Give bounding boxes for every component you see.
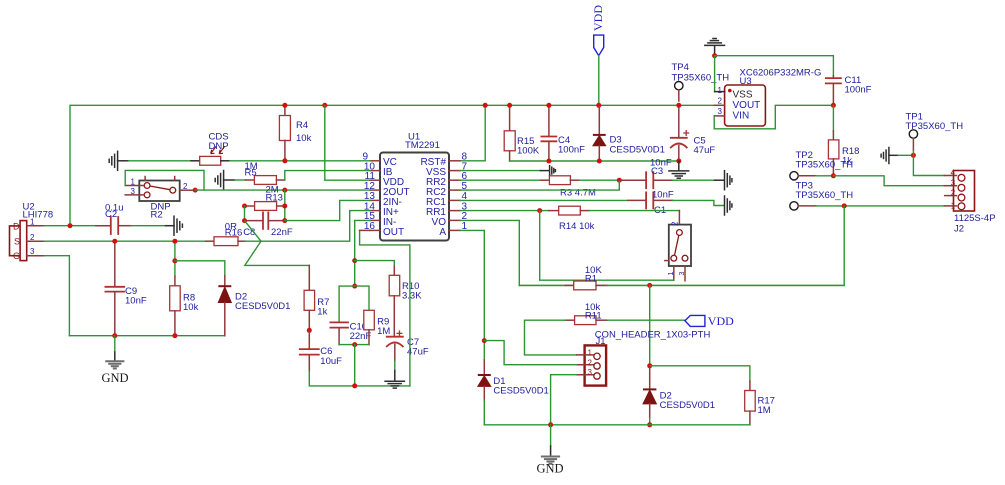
resistor CDS (photoresistor, DNP) xyxy=(191,132,230,166)
svg-text:3: 3 xyxy=(951,179,956,188)
node junction R3/C3/RC2 xyxy=(617,178,622,183)
node junction R8 bottom xyxy=(172,333,177,338)
svg-text:TP35X60_TH: TP35X60_TH xyxy=(796,190,854,201)
wire R18 node to J2 pin3 xyxy=(833,176,944,186)
svg-text:1k: 1k xyxy=(317,307,327,318)
resistor R14 xyxy=(549,206,595,232)
node junction R4 bottom xyxy=(282,158,287,163)
resistor R17 xyxy=(745,381,775,425)
resistor R4 xyxy=(279,105,311,161)
wire VDD rail top xyxy=(70,105,715,225)
svg-text:GND: GND xyxy=(537,462,564,476)
svg-text:1: 1 xyxy=(951,202,956,211)
ground sideways right of VSS (small) xyxy=(540,166,555,176)
node junction IN- / R10 xyxy=(352,258,357,263)
wire R3 to C3 node xyxy=(579,179,619,181)
diode D2 (bottom) xyxy=(643,366,715,425)
connector J1 CON_HEADER_1X03-PTH xyxy=(577,330,711,386)
pin 6 RR2 xyxy=(426,171,468,188)
node junction C4 top xyxy=(546,103,551,108)
svg-text:3.3K: 3.3K xyxy=(402,291,422,302)
wire TP2 to junction xyxy=(816,175,834,177)
svg-text:VDD: VDD xyxy=(708,314,734,328)
test point TP3 xyxy=(790,181,853,211)
pin 14 IN+ xyxy=(364,201,399,218)
svg-text:CESD5V0D1: CESD5V0D1 xyxy=(493,386,548,397)
wire TP1 to J2 pin4 xyxy=(913,150,944,176)
node junction C5 top / TP4 xyxy=(676,103,681,108)
wire bottom rail xyxy=(484,424,750,426)
wire block bottom to rail xyxy=(354,345,356,386)
svg-text:3: 3 xyxy=(679,272,686,276)
wire IN- drop xyxy=(355,220,370,286)
wire R14 to switch xyxy=(589,210,679,212)
svg-text:R13: R13 xyxy=(266,193,283,204)
svg-text:U3: U3 xyxy=(740,76,752,87)
wire VIN loop xyxy=(714,105,833,129)
svg-text:3: 3 xyxy=(718,107,723,116)
ground earth below C5 xyxy=(669,161,689,178)
node junction R8 branch xyxy=(172,258,177,263)
resistor R3 xyxy=(540,176,596,199)
ground flag GND left xyxy=(102,336,129,385)
svg-text:100K: 100K xyxy=(517,146,540,157)
svg-text:3: 3 xyxy=(588,368,593,377)
node junction C9 bottom xyxy=(112,333,117,338)
wire gnd down to U3 pin1 xyxy=(714,56,716,92)
node junction RR1 drop xyxy=(537,208,542,213)
wire to R17 xyxy=(650,366,750,381)
wire diagonal IN+ to R7 line xyxy=(245,241,309,265)
wire R11 right to VDD flag xyxy=(607,319,685,321)
svg-text:CESD5V0D1: CESD5V0D1 xyxy=(660,400,715,411)
pin 7 VSS xyxy=(426,162,468,179)
wire RR2 pin6 to R3 xyxy=(460,179,540,181)
svg-text:2: 2 xyxy=(718,97,723,106)
svg-text:D: D xyxy=(13,222,20,232)
svg-text:R5: R5 xyxy=(245,168,257,179)
op-amp U3 XC6206P332MR-G xyxy=(714,68,821,127)
wire R10 top branch xyxy=(355,261,395,267)
wire R13/C8 left link xyxy=(244,206,246,221)
svg-text:TP35X60_TH: TP35X60_TH xyxy=(906,121,964,132)
capacitor C8 xyxy=(243,212,293,238)
svg-text:47uF: 47uF xyxy=(694,145,716,156)
svg-text:J2: J2 xyxy=(954,224,964,235)
svg-text:R3 4.7M: R3 4.7M xyxy=(560,188,596,199)
svg-text:C3: C3 xyxy=(651,166,663,177)
node junction C9 top xyxy=(112,239,117,244)
resistor R1 xyxy=(519,265,607,290)
wire J1 pin3 down xyxy=(551,375,577,425)
wire C3 to gnd xyxy=(673,179,715,181)
capacitor C2 xyxy=(96,203,131,235)
svg-text:VIN: VIN xyxy=(733,110,750,121)
pin 10 IB xyxy=(364,162,393,179)
svg-text:R2: R2 xyxy=(151,210,163,221)
node junction RST# rail xyxy=(483,103,488,108)
pin 8 RST# xyxy=(420,152,467,169)
svg-text:3: 3 xyxy=(30,247,35,256)
wire bottom-left rail xyxy=(69,335,224,337)
wire gnd to CDS xyxy=(129,160,192,162)
svg-text:VSS: VSS xyxy=(733,90,753,101)
wire D2 branch down xyxy=(649,285,651,365)
pin 16 OUT xyxy=(364,221,404,238)
wire R2 pin1 jog xyxy=(125,170,204,190)
wire CDS to pin 9 xyxy=(230,160,370,162)
ground sideways left of CDS xyxy=(109,151,128,170)
node junction out rail xyxy=(352,383,357,388)
node junction C8 left xyxy=(242,218,247,223)
svg-text:1M: 1M xyxy=(758,405,771,416)
wire OUT pin16 routing xyxy=(360,230,410,386)
wire A pin1 drop xyxy=(460,230,484,340)
net flag VDD bottom xyxy=(685,314,734,328)
svg-text:3: 3 xyxy=(131,187,136,196)
resistor R8 xyxy=(170,241,199,336)
svg-text:1125S-4P: 1125S-4P xyxy=(954,213,996,224)
ground sideways right of C1 xyxy=(725,196,732,215)
diode D1 xyxy=(478,341,549,425)
resistor R16 0R xyxy=(206,222,245,246)
wire 2OUT drop to R13/C8 xyxy=(284,190,286,221)
svg-text:2: 2 xyxy=(588,358,593,367)
svg-text:CESD5V0D1: CESD5V0D1 xyxy=(235,301,290,312)
ground sideways left of R5 xyxy=(215,171,234,190)
wire gnd to R5 xyxy=(235,179,246,181)
svg-text:22nF: 22nF xyxy=(350,331,372,342)
node junction R13 right xyxy=(282,204,287,209)
wire C8 right to pin 13 xyxy=(285,200,370,220)
node junction R4 top xyxy=(282,103,287,108)
capacitor C4 xyxy=(541,105,585,161)
node junction R2 pin2 xyxy=(193,188,198,193)
svg-text:G: G xyxy=(13,251,20,261)
switch S1 xyxy=(665,211,691,281)
pin 11 VDD xyxy=(365,171,405,188)
wire C2 to gnd xyxy=(131,225,166,227)
node junction VDD-pin11 drop xyxy=(322,103,327,108)
svg-text:CESD5V0D1: CESD5V0D1 xyxy=(610,145,665,156)
node junction TP1 xyxy=(911,153,916,158)
wire TP3 to J2 pin1 xyxy=(816,205,945,207)
svg-text:LHI778: LHI778 xyxy=(23,210,54,221)
node junction 2OUT drop xyxy=(282,188,287,193)
capacitor C3 xyxy=(619,158,672,189)
svg-text:1: 1 xyxy=(718,86,723,95)
svg-text:22nF: 22nF xyxy=(271,227,293,238)
ground earth below C7 xyxy=(385,371,404,389)
svg-text:10k: 10k xyxy=(183,302,199,313)
svg-text:1: 1 xyxy=(131,178,136,187)
pin 1 A xyxy=(439,221,467,238)
wire R5 to pin 10 IB xyxy=(285,171,370,180)
wire R16 to IN+ xyxy=(245,211,370,242)
node junction block bottom xyxy=(352,342,357,347)
svg-text:2: 2 xyxy=(183,182,188,191)
wire 2OUT line xyxy=(195,189,370,191)
resistor R7 xyxy=(304,265,329,330)
svg-text:A: A xyxy=(439,227,446,238)
test point TP2 xyxy=(790,150,853,180)
wire TP3 node down to R1 line xyxy=(519,206,844,286)
wire RR1 drop to switch pin1 xyxy=(540,211,674,281)
node junction R18/TP2 xyxy=(831,173,836,178)
svg-text:J1: J1 xyxy=(596,336,606,347)
svg-text:1M: 1M xyxy=(377,326,390,337)
capacitor C7 polarized xyxy=(387,330,429,371)
node junction C4 bottom xyxy=(546,159,551,164)
svg-text:1: 1 xyxy=(588,349,593,358)
pin 2 VO xyxy=(432,211,468,228)
svg-text:10k: 10k xyxy=(296,133,312,144)
wire RST# to rail xyxy=(460,105,485,161)
svg-text:1: 1 xyxy=(668,272,675,276)
svg-text:OUT: OUT xyxy=(383,227,404,238)
node junction C10/R9 top xyxy=(352,284,357,289)
wire RC1 pin4 to C1 xyxy=(460,199,628,201)
wire R1 to TP3 drop xyxy=(607,284,844,286)
wire gnd to TP1 xyxy=(898,154,913,156)
ground earth above U3 (flipped up) xyxy=(705,39,725,56)
pin 12 2OUT xyxy=(364,181,410,198)
wire U2 pin2 line xyxy=(44,240,206,242)
svg-text:R4: R4 xyxy=(296,120,308,131)
connector J2 1125S-4P xyxy=(944,169,995,235)
node junction C8 right xyxy=(282,218,287,223)
svg-text:2: 2 xyxy=(671,221,680,226)
svg-text:TP35X60_TH: TP35X60_TH xyxy=(796,160,854,171)
svg-text:100nF: 100nF xyxy=(845,85,872,96)
ground sideways right of C2 xyxy=(166,216,183,235)
node junction D2/R17 xyxy=(647,363,652,368)
wire branch to D2 xyxy=(175,261,225,276)
resistor R9 xyxy=(364,310,391,344)
wire gnd to C11 top xyxy=(715,56,834,76)
pin 13 2IN- xyxy=(364,191,402,208)
wire U2 pin1 to C2 xyxy=(44,225,96,227)
pin 15 IN- xyxy=(364,211,396,228)
svg-text:DNP: DNP xyxy=(209,141,229,152)
svg-text:C2: C2 xyxy=(105,209,117,220)
svg-text:TM2291: TM2291 xyxy=(405,140,440,151)
svg-text:10nF: 10nF xyxy=(125,296,147,307)
node junction D2 bottom rail xyxy=(647,422,652,427)
pin 4 RC1 xyxy=(426,191,468,208)
node junction J1 pin3 / rail xyxy=(548,422,553,427)
wire C1 to gnd jog xyxy=(673,200,725,205)
resistor R18 xyxy=(828,105,859,176)
wire diagonal C8 to IN+ xyxy=(245,221,261,241)
wire C10/R9 block top xyxy=(339,286,369,322)
node junction D3 bottom xyxy=(597,159,602,164)
wire R11 left to J1 pin1 xyxy=(525,320,577,355)
svg-text:TP4: TP4 xyxy=(672,62,689,73)
pin 3 RR1 xyxy=(426,201,468,218)
ground flag GND middle xyxy=(537,425,564,476)
svg-text:CON_HEADER_1X03-PTH: CON_HEADER_1X03-PTH xyxy=(595,330,711,341)
capacitor C1 xyxy=(628,190,674,217)
wire VO pin2 to R1 line xyxy=(460,220,519,285)
svg-text:2: 2 xyxy=(30,233,35,242)
ground sideways right of C3 xyxy=(715,171,732,190)
capacitor C5 polarized xyxy=(671,105,716,161)
node junction R7/C6 xyxy=(307,328,312,333)
resistor R11 xyxy=(565,302,607,325)
node junction A/D1/J1pin2 xyxy=(482,338,487,343)
resistor R13 xyxy=(245,185,285,211)
net flag VDD top xyxy=(591,5,605,56)
node junction C5 bottom xyxy=(676,159,681,164)
node junction C11/VIN/R18 xyxy=(831,103,836,108)
wire U2 pin3 down xyxy=(44,256,69,336)
wire VDD flag stem xyxy=(598,56,600,106)
resistor R5 xyxy=(245,161,285,184)
svg-text:GND: GND xyxy=(102,371,129,385)
node junction pin1/VDD drop xyxy=(68,223,73,228)
node junction VDD/rail xyxy=(596,103,601,108)
wire C6 to out rail xyxy=(309,372,410,386)
svg-text:XC6206P332MR-G: XC6206P332MR-G xyxy=(740,68,822,79)
svg-text:TP35X60_TH: TP35X60_TH xyxy=(672,73,730,84)
node junction R13 left xyxy=(242,204,247,209)
svg-text:10nF: 10nF xyxy=(652,190,674,201)
op-amp U1 TM2291 xyxy=(380,132,449,241)
wire C10/R9 block bottom xyxy=(339,344,369,346)
node junction VSS/gnd xyxy=(712,53,717,58)
svg-text:R11: R11 xyxy=(585,310,602,321)
svg-text:2: 2 xyxy=(951,188,956,197)
wire J1 pin2 to A/D1 node xyxy=(484,341,576,365)
svg-text:VDD: VDD xyxy=(591,5,605,31)
node junction R15 top xyxy=(507,103,512,108)
svg-text:R1: R1 xyxy=(585,274,597,285)
capacitor C6 xyxy=(300,330,342,371)
svg-text:10uF: 10uF xyxy=(320,356,342,367)
wire RR1 pin3 to R14 xyxy=(460,210,549,212)
switch R2 DNP xyxy=(125,177,193,221)
svg-text:100nF: 100nF xyxy=(558,145,585,156)
wire VSS pin7 xyxy=(460,170,540,172)
svg-text:R14 10k: R14 10k xyxy=(559,221,595,232)
resistor R10 xyxy=(389,266,422,336)
pin 9 VC xyxy=(362,152,396,169)
capacitor C11 xyxy=(826,75,872,105)
diode D3 xyxy=(593,105,665,161)
pin 5 RC2 xyxy=(426,181,468,198)
svg-text:R16: R16 xyxy=(225,228,242,239)
node junction R8 top xyxy=(172,239,177,244)
node junction R1/D2 xyxy=(647,283,652,288)
test point TP1 xyxy=(906,112,964,151)
wire VDD to U1 pin11 xyxy=(325,105,370,180)
ground sideways left of TP1 xyxy=(881,148,898,164)
capacitor C10 xyxy=(330,322,371,345)
test point TP4 xyxy=(672,62,730,101)
wire lower rail C4/D3/C5 xyxy=(510,160,679,162)
svg-text:4: 4 xyxy=(951,169,956,178)
resistor R15 xyxy=(504,105,540,161)
diode D2 (left) xyxy=(218,276,290,336)
svg-text:S: S xyxy=(14,237,20,247)
transistor U2 LHI778 xyxy=(10,202,54,261)
capacitor C9 xyxy=(105,241,146,336)
node junction TP3/J2 xyxy=(842,203,847,208)
wire RC2 pin5 jog xyxy=(460,180,619,190)
